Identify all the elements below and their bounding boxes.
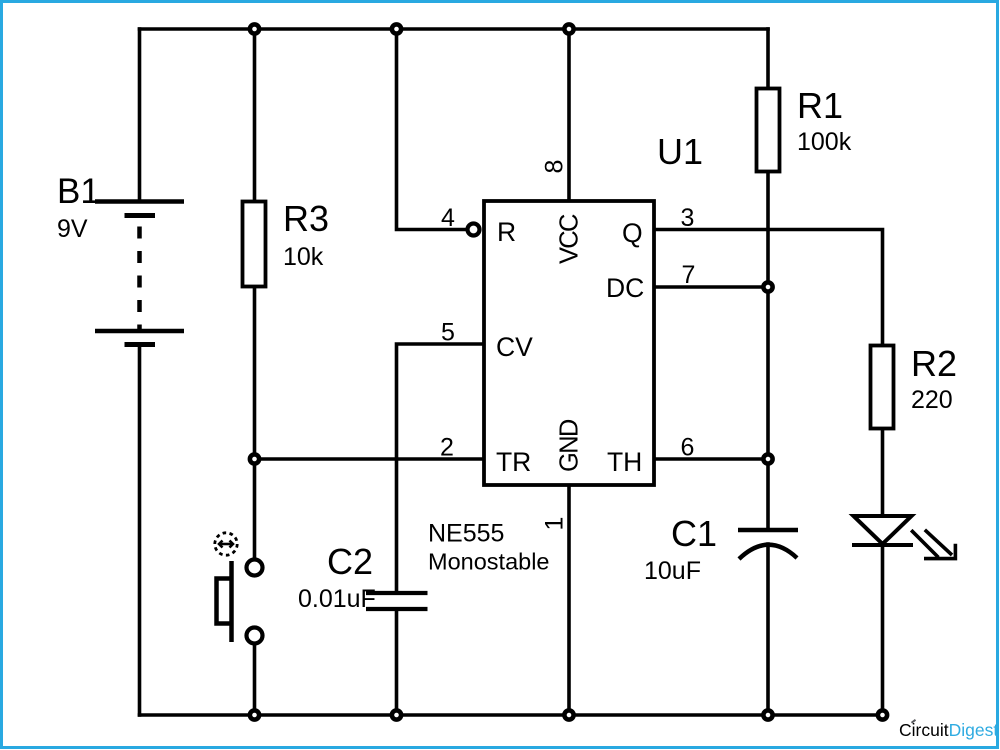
svg-text:5: 5 bbox=[441, 319, 455, 347]
svg-text:R1: R1 bbox=[797, 85, 843, 126]
svg-text:2: 2 bbox=[440, 434, 454, 462]
svg-text:B1: B1 bbox=[57, 172, 100, 211]
svg-text:CV: CV bbox=[496, 332, 533, 362]
svg-text:10k: 10k bbox=[283, 243, 324, 271]
svg-text:6: 6 bbox=[681, 434, 695, 462]
svg-text:9V: 9V bbox=[57, 215, 88, 243]
svg-text:GND: GND bbox=[556, 419, 584, 472]
svg-text:100k: 100k bbox=[797, 128, 852, 156]
svg-text:7: 7 bbox=[682, 261, 696, 289]
svg-text:C1: C1 bbox=[671, 513, 717, 554]
svg-text:220: 220 bbox=[911, 386, 953, 414]
svg-text:R2: R2 bbox=[911, 343, 957, 384]
svg-text:C2: C2 bbox=[327, 541, 373, 582]
svg-text:TR: TR bbox=[496, 447, 531, 477]
svg-text:3: 3 bbox=[681, 204, 695, 232]
svg-text:1: 1 bbox=[541, 517, 569, 531]
svg-text:Q: Q bbox=[622, 218, 643, 248]
svg-text:VCC: VCC bbox=[556, 214, 584, 264]
svg-text:0.01uF: 0.01uF bbox=[298, 585, 376, 613]
svg-text:CircuitDigest: CircuitDigest bbox=[899, 720, 998, 740]
svg-text:8: 8 bbox=[541, 160, 569, 174]
svg-text:DC: DC bbox=[606, 273, 644, 303]
svg-text:R: R bbox=[497, 217, 516, 247]
svg-text:NE555: NE555 bbox=[428, 520, 504, 548]
svg-text:TH: TH bbox=[607, 447, 642, 477]
svg-text:R3: R3 bbox=[283, 198, 329, 239]
svg-text:4: 4 bbox=[441, 204, 455, 232]
svg-text:Monostable: Monostable bbox=[428, 549, 550, 575]
svg-text:U1: U1 bbox=[657, 131, 703, 172]
svg-text:10uF: 10uF bbox=[644, 557, 701, 585]
